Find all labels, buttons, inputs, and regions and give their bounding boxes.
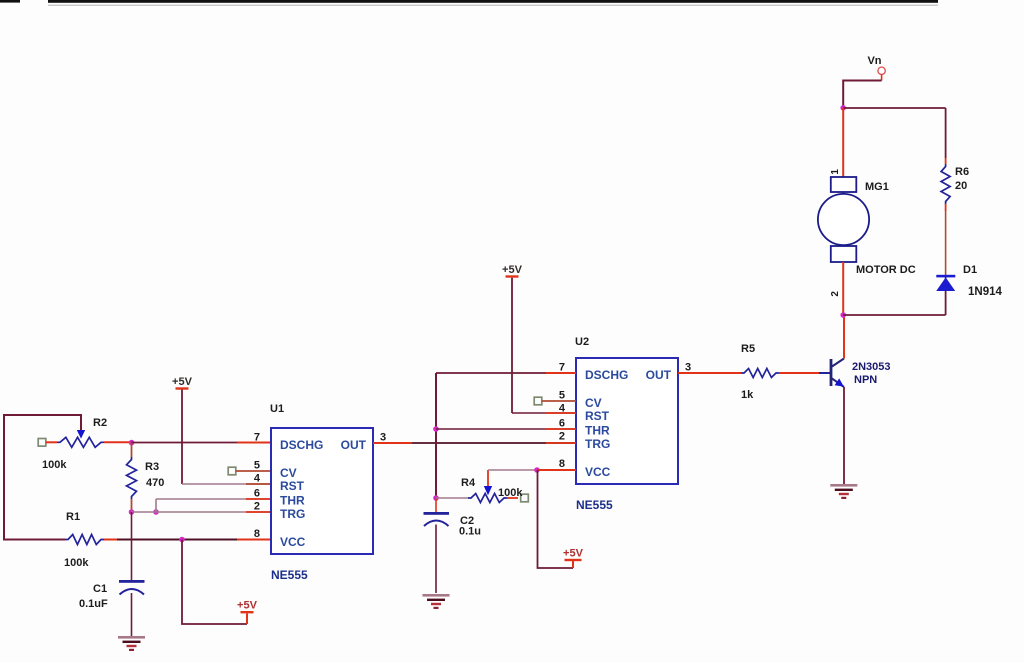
- svg-text:+5V: +5V: [172, 376, 193, 388]
- svg-text:THR: THR: [280, 494, 305, 508]
- svg-text:470: 470: [146, 477, 164, 489]
- svg-text:OUT: OUT: [646, 368, 672, 382]
- svg-text:0.1u: 0.1u: [459, 526, 481, 538]
- svg-text:100k: 100k: [64, 557, 89, 569]
- svg-text:VCC: VCC: [585, 465, 611, 479]
- svg-text:20: 20: [955, 180, 967, 192]
- svg-text:+5V: +5V: [237, 600, 258, 612]
- svg-text:7: 7: [559, 362, 565, 374]
- svg-text:3: 3: [685, 362, 691, 374]
- svg-text:THR: THR: [585, 424, 610, 438]
- svg-text:R4: R4: [461, 477, 476, 489]
- svg-text:+5V: +5V: [502, 264, 523, 276]
- svg-text:2: 2: [559, 431, 565, 443]
- svg-text:C1: C1: [93, 583, 107, 595]
- svg-text:D1: D1: [963, 264, 977, 276]
- svg-text:DSCHG: DSCHG: [585, 368, 628, 382]
- svg-text:R1: R1: [66, 511, 80, 523]
- svg-text:1N914: 1N914: [968, 286, 1002, 298]
- svg-text:0.1uF: 0.1uF: [79, 598, 108, 610]
- svg-text:R6: R6: [955, 166, 969, 178]
- svg-text:2: 2: [254, 501, 260, 513]
- svg-text:VCC: VCC: [280, 535, 306, 549]
- svg-text:RST: RST: [280, 479, 305, 493]
- svg-text:1: 1: [830, 169, 841, 175]
- svg-text:Vn: Vn: [867, 55, 881, 67]
- svg-text:NE555: NE555: [576, 498, 613, 512]
- svg-text:8: 8: [254, 528, 260, 540]
- svg-text:2N3053: 2N3053: [852, 361, 891, 373]
- svg-text:2: 2: [830, 291, 841, 297]
- svg-text:5: 5: [254, 460, 260, 472]
- svg-text:R2: R2: [93, 417, 107, 429]
- svg-text:NE555: NE555: [271, 568, 308, 582]
- svg-text:+5V: +5V: [563, 547, 584, 559]
- svg-text:U2: U2: [575, 336, 589, 348]
- svg-text:6: 6: [559, 418, 565, 430]
- svg-text:3: 3: [380, 432, 386, 444]
- svg-text:1k: 1k: [741, 389, 754, 401]
- svg-text:8: 8: [559, 458, 565, 470]
- svg-text:100k: 100k: [42, 459, 67, 471]
- svg-text:100k: 100k: [498, 487, 523, 499]
- svg-text:MG1: MG1: [865, 181, 889, 193]
- svg-text:4: 4: [254, 473, 261, 485]
- svg-text:TRG: TRG: [280, 507, 305, 521]
- svg-text:RST: RST: [585, 409, 610, 423]
- svg-text:DSCHG: DSCHG: [280, 438, 323, 452]
- svg-text:NPN: NPN: [854, 374, 877, 386]
- svg-text:R5: R5: [741, 343, 755, 355]
- svg-text:6: 6: [254, 488, 260, 500]
- svg-text:TRG: TRG: [585, 437, 610, 451]
- svg-text:CV: CV: [585, 396, 602, 410]
- svg-text:5: 5: [559, 390, 565, 402]
- svg-text:7: 7: [254, 432, 260, 444]
- svg-text:R3: R3: [145, 461, 159, 473]
- svg-text:OUT: OUT: [341, 438, 367, 452]
- svg-text:MOTOR DC: MOTOR DC: [856, 264, 916, 276]
- svg-text:CV: CV: [280, 466, 297, 480]
- svg-text:U1: U1: [270, 403, 284, 415]
